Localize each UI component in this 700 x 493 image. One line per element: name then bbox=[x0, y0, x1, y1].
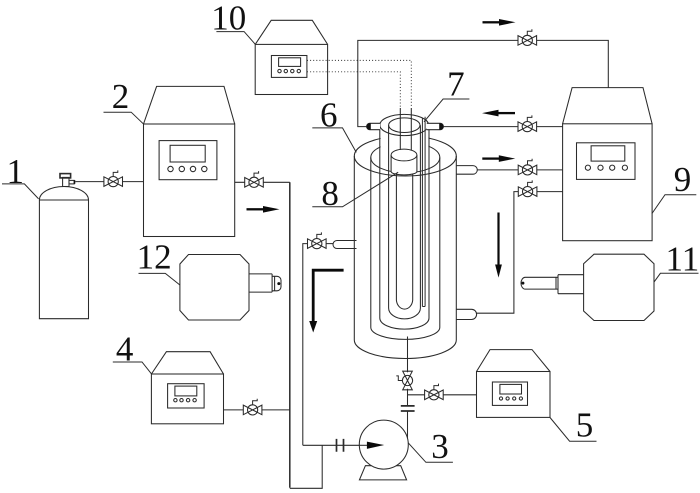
pipe neck-left-stub up and over to controller 9 bbox=[358, 40, 609, 126]
leader line label 3 bbox=[408, 443, 453, 462]
leader line label 6 bbox=[312, 128, 356, 152]
pump 3 bbox=[359, 420, 408, 480]
flow arrow A3 (down) bbox=[495, 213, 502, 278]
svg-text:9: 9 bbox=[674, 160, 692, 199]
svg-text:5: 5 bbox=[576, 406, 594, 445]
svg-text:3: 3 bbox=[431, 427, 449, 466]
pipe to controller 5 bbox=[408, 394, 477, 396]
svg-text:7: 7 bbox=[447, 64, 465, 103]
pipe controller4 to downline bbox=[224, 409, 290, 411]
inner tube pair B walls and U bottom bbox=[389, 125, 421, 319]
svg-text:4: 4 bbox=[116, 329, 134, 368]
valve V8 (vertical) bbox=[396, 371, 412, 390]
neck mask bbox=[381, 112, 429, 157]
leader line label 9 bbox=[652, 195, 696, 214]
inner tube pair A walls and U bottom bbox=[380, 125, 429, 329]
sensor lead wires solid into sensor 8 bbox=[400, 108, 411, 150]
vessel jacket walls and bottom bbox=[371, 158, 440, 340]
vessel right stub upper bbox=[457, 166, 478, 175]
controller box 5 bbox=[477, 350, 551, 418]
controller box 2 bbox=[144, 86, 235, 236]
controller box 4 bbox=[151, 352, 223, 424]
sensor lead wires (dashed) from controller 10 bbox=[307, 60, 411, 108]
flow arrow A4 bbox=[483, 19, 516, 26]
flange F2 bbox=[337, 439, 344, 452]
valve V9 bbox=[425, 384, 444, 400]
reactor vessel 6: outer rim ellipses bbox=[354, 136, 456, 176]
svg-text:2: 2 bbox=[112, 77, 130, 116]
drain pipe below vessel bbox=[407, 337, 409, 444]
leader line label 12 bbox=[139, 273, 180, 285]
valve V5 bbox=[518, 159, 537, 175]
innermost tube pair walls and U bottom bbox=[396, 174, 412, 310]
pipe cylinder1 to controller 2 bbox=[75, 181, 143, 183]
pipe controller2 to downline bbox=[235, 181, 290, 183]
pipe vessel right stub to controller 9 bbox=[477, 169, 562, 171]
neck left stub bbox=[367, 123, 380, 129]
valve V4 bbox=[518, 115, 537, 131]
flow arrow A5 (left) bbox=[482, 110, 515, 117]
sensor 8 body bbox=[391, 155, 417, 175]
flange F1 bbox=[401, 406, 415, 411]
gas cylinder 1 bbox=[39, 174, 88, 319]
thin tube 7 bbox=[422, 117, 425, 307]
valve V3 bbox=[518, 29, 537, 45]
controller box 10 bbox=[255, 20, 327, 94]
leader line label 7 bbox=[424, 99, 469, 122]
wire: bottom jog to pump inlet bbox=[290, 445, 322, 488]
leader line label 10 bbox=[216, 32, 255, 45]
valve V2 bbox=[245, 171, 264, 187]
valve V1 bbox=[104, 170, 123, 186]
pipe controller 9 down to vessel lower right stub bbox=[477, 192, 563, 314]
leader line label 5 bbox=[550, 418, 597, 442]
valve V7 bbox=[308, 232, 327, 248]
leader line label 4 bbox=[113, 362, 152, 374]
pipe valve V7 to vessel stub bbox=[326, 243, 334, 245]
flow arrow A6 bbox=[482, 155, 515, 162]
valve V6 bbox=[518, 180, 537, 196]
svg-text:11: 11 bbox=[666, 239, 700, 278]
valve V10 bbox=[243, 399, 262, 415]
wire: main left down pipe bbox=[289, 182, 291, 488]
svg-text:8: 8 bbox=[321, 174, 339, 213]
motor 11 bbox=[521, 254, 654, 320]
svg-text:10: 10 bbox=[211, 0, 246, 38]
pump inlet pipe bbox=[303, 444, 359, 446]
flow arrow A2 (L-shaped) bbox=[313, 270, 343, 321]
leader line label 2 bbox=[104, 112, 144, 124]
svg-text:1: 1 bbox=[6, 152, 24, 191]
svg-text:12: 12 bbox=[137, 238, 172, 277]
circulation pipe: vessel left stub to pump inlet bbox=[303, 244, 308, 446]
leader line label 8 bbox=[312, 172, 398, 207]
leader line label 11 bbox=[654, 273, 698, 282]
leader line label 1 bbox=[2, 184, 39, 199]
controller box 9 bbox=[563, 88, 653, 241]
vessel outer walls and bottom bbox=[354, 156, 456, 359]
reactor neck (6) ellipses bbox=[380, 114, 429, 135]
motor 12 bbox=[180, 255, 281, 321]
neck right stub bbox=[427, 123, 444, 129]
flow arrow A1 bbox=[247, 206, 280, 213]
svg-text:6: 6 bbox=[320, 96, 338, 135]
vessel right stub lower bbox=[457, 309, 477, 319]
pipe neck-right-stub to controller 9 bbox=[443, 126, 562, 128]
vessel left wall stub bbox=[333, 241, 357, 249]
